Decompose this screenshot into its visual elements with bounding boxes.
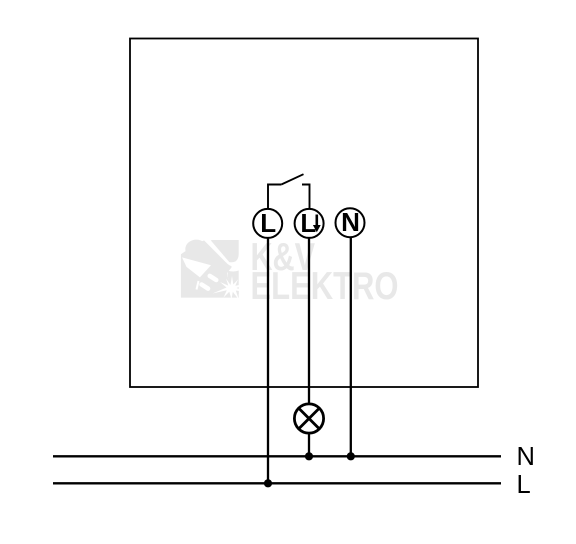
- logo white prong slot A: [202, 285, 208, 289]
- lamp: [294, 404, 323, 433]
- wire L down: [267, 238, 269, 483]
- junction dot L-L: [264, 479, 272, 487]
- logo white notch wedge: [182, 257, 211, 277]
- switch blade: [281, 174, 303, 184]
- svg-text:N: N: [341, 207, 360, 237]
- switch left wire: [268, 185, 281, 210]
- logo spark starburst: [213, 276, 247, 300]
- logo white prong slot B: [210, 276, 216, 280]
- svg-text:N: N: [517, 443, 535, 471]
- junction dot N-N: [347, 452, 355, 460]
- wire lamp down to N line: [308, 433, 310, 456]
- svg-text:L: L: [517, 471, 531, 499]
- device box: [130, 39, 478, 388]
- logo top-right triangle: [211, 240, 239, 262]
- switch right contact: [302, 185, 310, 210]
- svg-text:L: L: [260, 208, 276, 238]
- logo gray mass: [181, 240, 239, 298]
- svg-text:ELEKTRO: ELEKTRO: [251, 265, 399, 308]
- logo bottom-right patch: [228, 271, 239, 295]
- logo white hypotenuse gap: [197, 281, 199, 290]
- watermark logo K&V Elektro: [181, 236, 246, 301]
- N supply line: [53, 455, 501, 457]
- logo white channel: [203, 236, 241, 265]
- L supply line: [53, 482, 501, 484]
- logo plug cap circle: [185, 240, 207, 259]
- terminal L: [253, 208, 282, 238]
- svg-text:L: L: [300, 208, 316, 238]
- terminal N: [336, 207, 365, 237]
- terminal L-switched: [295, 208, 324, 238]
- wire L-switched down to lamp: [308, 238, 310, 404]
- wire N down: [350, 237, 352, 456]
- junction dot lamp-N: [305, 452, 313, 460]
